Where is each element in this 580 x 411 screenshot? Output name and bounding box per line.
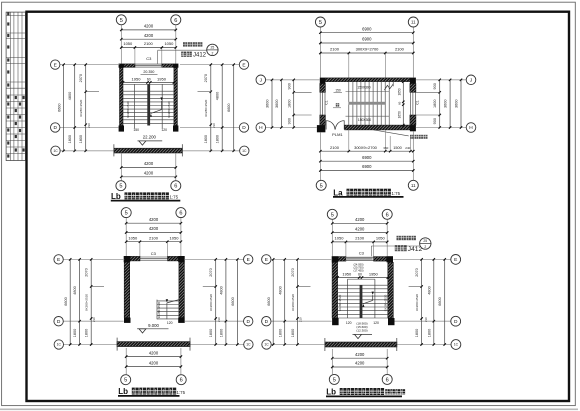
Q2 corner column bottom-right — [410, 125, 416, 131]
svg-text:E: E — [454, 257, 457, 263]
Q1 bottom dim 4200 upper — [120, 166, 177, 168]
Q2 axis line J right — [416, 79, 466, 81]
Q3 axis line C left — [63, 344, 117, 346]
svg-text:300X9=2700: 300X9=2700 — [356, 47, 380, 52]
svg-text:150: 150 — [335, 88, 341, 92]
svg-text:20.350: 20.350 — [143, 70, 154, 74]
Q3 window C3 lines — [140, 257, 168, 260]
Q1 left wall — [120, 68, 124, 126]
Q1 axis line D right — [180, 127, 239, 129]
svg-text:120: 120 — [346, 321, 352, 325]
Q1 detail index symbol — [207, 44, 218, 55]
svg-text:6600: 6600 — [438, 297, 442, 305]
Q4 axis bubble D left — [262, 317, 271, 326]
svg-text:6900: 6900 — [362, 26, 372, 31]
svg-text:2100: 2100 — [355, 236, 365, 241]
Q3 axis bubble D right — [244, 317, 253, 326]
Q3 corner column top-left — [124, 256, 131, 262]
Q4 axis bubble E right — [451, 255, 461, 265]
Q2 window C1 right wall — [410, 92, 415, 115]
svg-text:9X280=2520: 9X280=2520 — [204, 99, 208, 116]
Q1 column bottom-right — [173, 126, 178, 132]
svg-text:2100: 2100 — [144, 41, 154, 46]
Q4 axis bubble 5 top — [327, 209, 337, 219]
Q4 bottom dim 4200 lower — [331, 366, 388, 368]
svg-text:9X280=2520: 9X280=2520 — [338, 294, 342, 311]
Q4 inner dim line — [336, 276, 389, 278]
Q1 axis line E left — [60, 64, 120, 66]
svg-text:1650: 1650 — [397, 111, 401, 118]
Q2 stair treads vertical — [349, 82, 393, 126]
Q1 top wall hatched segments — [124, 64, 173, 67]
title block strip table — [6, 12, 25, 160]
svg-text:2070: 2070 — [85, 268, 89, 276]
Q3 right dim texts — [209, 268, 235, 337]
Q1 landing elevation 20.350 — [141, 70, 158, 74]
Q1 window C3 in top wall — [135, 64, 162, 67]
Q4 stair treads — [338, 285, 388, 318]
Q2 right chain 3600 b — [460, 79, 462, 129]
Q4 leader to railing note — [371, 246, 419, 256]
svg-text:5: 5 — [319, 20, 322, 26]
Q3 axis bubble E right — [244, 255, 253, 264]
Q2 axis line J left — [266, 79, 320, 81]
svg-text:4200: 4200 — [144, 24, 154, 29]
Q2 dim texts 2100 300X9=2700 2100 — [330, 47, 405, 52]
svg-text:1800: 1800 — [291, 329, 295, 337]
Q3 left chain 6600 — [69, 258, 71, 346]
svg-text:9X280=2520: 9X280=2520 — [167, 101, 171, 118]
svg-text:D: D — [265, 319, 269, 325]
svg-text:3600: 3600 — [275, 100, 279, 108]
Q2 axis bubble 11 top — [408, 17, 418, 27]
svg-text:3600: 3600 — [444, 100, 448, 108]
Q3 bottom dim 4200 lower — [125, 365, 182, 367]
Q4 stair well outline — [348, 279, 375, 318]
svg-text:4800: 4800 — [278, 286, 282, 294]
svg-text:60: 60 — [397, 101, 401, 104]
Q1 axis bubble D right — [239, 123, 248, 132]
svg-text:1800: 1800 — [79, 135, 83, 143]
Q4 corner column top-left — [332, 256, 339, 262]
Q3 axis bubble 5 top — [121, 208, 131, 218]
Q3 axis line E right — [184, 258, 243, 260]
Q4 column bottom-right — [388, 318, 395, 325]
Q2 dim 2100-2700-2100 — [319, 52, 414, 54]
svg-text:120: 120 — [167, 321, 173, 325]
svg-text:4200: 4200 — [144, 161, 154, 166]
Q3 axis 5 extension line — [125, 218, 127, 256]
Q2 axis 5 extension line — [319, 27, 321, 77]
Q1 axis bubble 6 bottom — [171, 181, 181, 191]
Q2 axis line H right — [416, 127, 466, 129]
Q4 right chain 6600 — [444, 258, 446, 346]
Q3 axis line D right — [185, 320, 244, 322]
Q1 stair rail left — [134, 84, 136, 128]
svg-text:1050: 1050 — [376, 236, 386, 241]
Q4 dim texts 1050 2100 1050 — [335, 236, 386, 241]
svg-text:H: H — [469, 125, 473, 131]
svg-text:Lb: Lb — [111, 192, 121, 201]
Q4 central divider wall — [360, 285, 363, 318]
Q4 window C3 sectioned sash — [346, 257, 374, 260]
Q2 column bottom-left — [317, 125, 326, 132]
svg-text:6900: 6900 — [362, 37, 372, 42]
Q4 axis bubble 5 bottom — [329, 374, 339, 384]
Q3 stair arrow line — [166, 299, 168, 319]
svg-text:6: 6 — [386, 377, 389, 383]
svg-text:E: E — [54, 62, 57, 68]
Q2 left chain 3600 outer — [271, 79, 273, 129]
Q3 left dim texts — [64, 268, 96, 337]
Q4 note text xi-nan J412 — [395, 245, 423, 253]
Q3 dim texts 1050 2100 1050 — [128, 235, 179, 240]
svg-text:1800: 1800 — [287, 100, 291, 108]
Q3 stair fragment treads — [157, 301, 179, 319]
svg-text:4200: 4200 — [355, 361, 365, 366]
svg-text:900: 900 — [433, 118, 437, 124]
svg-text:25: 25 — [423, 239, 427, 243]
svg-text:1C: 1C — [246, 343, 251, 347]
Q3 axis bubble 6 top — [176, 208, 186, 218]
Q1 axis 5 extension line — [120, 25, 122, 64]
svg-text:D: D — [454, 319, 458, 325]
svg-text:1050: 1050 — [123, 41, 133, 46]
svg-text:1800: 1800 — [204, 135, 208, 143]
svg-text:2070: 2070 — [204, 74, 208, 82]
Q4 top wall hatched segments — [338, 257, 386, 262]
title block tiny labels — [7, 12, 25, 157]
svg-text:1:75: 1:75 — [177, 390, 186, 395]
svg-text:E: E — [242, 62, 245, 68]
Q3 top wall hatched segments — [130, 256, 178, 261]
Q1 axis line C right — [182, 150, 239, 152]
svg-text:9X280=2520: 9X280=2520 — [291, 294, 295, 311]
Q1 stair rail right — [161, 84, 163, 128]
Q3 dim 1050-2100-1050 — [125, 241, 182, 243]
Q3 corner column top-right — [178, 256, 185, 262]
svg-text:2070: 2070 — [291, 268, 295, 276]
Q1 direction arrow — [150, 97, 163, 116]
svg-text:9X280=2520: 9X280=2520 — [384, 294, 388, 311]
svg-text:Lb: Lb — [326, 388, 336, 397]
Q1 axis bubble 5 bottom — [116, 181, 126, 191]
Q4 right chain 4800-1800 — [433, 258, 435, 346]
Q1 right chain detail — [210, 63, 212, 152]
svg-text:6600: 6600 — [227, 103, 231, 111]
svg-text:4200: 4200 — [144, 33, 154, 38]
svg-text:6900: 6900 — [362, 155, 372, 160]
Q1 dim line 1050-2100-1050 — [120, 46, 177, 48]
svg-text:9X280=2520: 9X280=2520 — [209, 294, 213, 311]
Q4 axis line D left — [271, 320, 332, 322]
svg-text:9X280=2520: 9X280=2520 — [126, 101, 130, 118]
svg-text:1500: 1500 — [393, 146, 401, 150]
Q2 axis bubble 11 bottom — [408, 180, 418, 190]
Q4 floor slab band — [325, 338, 397, 351]
svg-text:2070: 2070 — [79, 74, 83, 82]
svg-text:1800: 1800 — [219, 329, 223, 337]
svg-text:H: H — [259, 125, 263, 131]
Q4 left wall — [332, 262, 338, 318]
Q3 right chain 4800-1800 — [225, 258, 227, 346]
Q1 axis bubble 1C left — [51, 146, 60, 155]
Q2 axis bubble 5 top — [315, 17, 325, 27]
Q1 inner dim line — [122, 81, 175, 83]
Q4 bottom extension lines — [332, 349, 387, 374]
svg-text:150: 150 — [133, 128, 139, 132]
Q3 left chain boundary dash — [91, 286, 104, 288]
Q1 axis line D left — [60, 127, 119, 129]
Q3 axis bubble E left — [54, 255, 63, 264]
Q2 right wall hatched segments — [410, 84, 416, 126]
Q3 axis line C right — [190, 344, 244, 346]
Q1 central divider wall — [147, 84, 150, 125]
Q3 floor slab band — [117, 338, 190, 351]
svg-text:6: 6 — [174, 18, 177, 24]
svg-text:PLM1: PLM1 — [332, 132, 343, 137]
Q1 note text xi-nan J412 — [181, 52, 206, 59]
svg-text:4200: 4200 — [149, 360, 159, 365]
Q2 annotation 150 — [334, 88, 343, 92]
Q2 left chain 900-1800-900 — [293, 79, 295, 129]
Q3 column bottom-left — [124, 318, 131, 323]
Q4 right chain boundary dash — [409, 286, 422, 288]
Q2 flight rail lines — [346, 92, 390, 117]
svg-text:E: E — [265, 257, 268, 263]
Q4 dim 4200 lower — [331, 231, 388, 233]
svg-text:D: D — [242, 125, 246, 131]
Q3 bottom extension lines — [126, 348, 181, 374]
svg-text:60: 60 — [147, 78, 151, 82]
svg-text:1800: 1800 — [415, 329, 419, 337]
svg-text:210: 210 — [92, 317, 96, 322]
Q2 left dim texts — [266, 83, 292, 124]
svg-text:1950: 1950 — [342, 272, 352, 277]
Q2 axis bubble H left — [256, 123, 266, 133]
svg-text:120: 120 — [161, 128, 167, 132]
Q4 left chain detail — [296, 258, 298, 346]
Q3 dim 4200 upper — [125, 222, 182, 224]
Q4 landing elevation stack — [353, 263, 363, 273]
Q1 corner column top-right — [173, 64, 178, 68]
Q3 left wall — [124, 262, 130, 317]
Q1 dim texts 1050 2100 1050 — [123, 41, 174, 46]
scan shadow line bottom — [0, 408, 578, 410]
Q2 axis line H left — [266, 127, 317, 129]
svg-text:6600: 6600 — [231, 297, 235, 305]
svg-text:D: D — [246, 319, 250, 325]
Q3 axis bubble 5 bottom — [121, 375, 131, 385]
svg-text:150X300: 150X300 — [357, 85, 370, 89]
Q1 axis line C left — [61, 150, 114, 152]
Q2 bottom dim 6900 lower — [319, 169, 414, 171]
Q4 axis line C left — [271, 344, 325, 346]
Q2 title La stair plan — [333, 188, 404, 197]
Q4 right dim texts — [415, 268, 442, 337]
Q3 right wall — [179, 262, 185, 317]
svg-text:210: 210 — [87, 123, 91, 128]
svg-text:4800: 4800 — [216, 92, 220, 100]
Q4 dim 4200 upper — [331, 222, 388, 224]
svg-text:1650: 1650 — [397, 88, 401, 95]
svg-text:210: 210 — [217, 317, 221, 322]
Q3 window extension lines — [140, 242, 167, 257]
svg-text:E: E — [247, 257, 250, 263]
svg-text:5: 5 — [120, 18, 123, 24]
svg-text:6: 6 — [174, 184, 177, 190]
Q4 column bottom-left — [332, 318, 339, 325]
svg-text:C3: C3 — [359, 251, 365, 256]
Q2 corner column top-right — [410, 78, 416, 84]
svg-text:6: 6 — [180, 378, 183, 384]
Q1 axis bubble 6 top — [171, 15, 181, 25]
svg-text:1050: 1050 — [128, 235, 138, 240]
Q3 column bottom-right — [178, 318, 185, 323]
svg-text:1:75: 1:75 — [170, 195, 179, 200]
svg-text:210: 210 — [212, 123, 216, 128]
svg-text:C3: C3 — [151, 251, 157, 256]
Q1 floor slab band — [114, 144, 182, 156]
Q2 central handrail band — [348, 102, 385, 105]
svg-text:5: 5 — [124, 378, 127, 384]
svg-text:1800: 1800 — [433, 100, 437, 108]
svg-text:9.000: 9.000 — [148, 323, 159, 328]
svg-text:5: 5 — [331, 212, 334, 218]
Q3 stair break diagonal — [167, 299, 181, 303]
Q3 dim 4200 lower — [125, 231, 182, 233]
svg-text:1950: 1950 — [369, 272, 379, 277]
Q4 bottom dim 4200 upper — [331, 357, 388, 359]
svg-text:3600: 3600 — [266, 100, 270, 108]
Q2 axis bubble J right — [466, 75, 476, 85]
Q1 right chain 6600 — [233, 63, 235, 152]
Q2 axis bubble J left — [256, 75, 266, 85]
svg-text:1:75: 1:75 — [392, 191, 401, 196]
svg-text:2070: 2070 — [209, 268, 213, 276]
Q4 axis bubble D right — [451, 316, 461, 326]
Q3 axis bubble 1C left — [54, 340, 63, 349]
Q1 right chain boundary dash — [198, 91, 211, 93]
svg-text:1800: 1800 — [73, 329, 77, 337]
svg-text:210: 210 — [299, 317, 303, 322]
Q1 bottom extension lines — [121, 154, 176, 181]
svg-text:4800: 4800 — [427, 286, 431, 294]
Q4 axis 6 extension line — [386, 220, 388, 257]
svg-text:9X280=2520: 9X280=2520 — [415, 294, 419, 311]
Q4 corner column top-right — [387, 256, 394, 262]
Q4 axis 5 extension line — [331, 220, 333, 257]
svg-text:4200: 4200 — [355, 217, 365, 222]
svg-text:4200: 4200 — [144, 171, 154, 176]
Q2 bottom dim 6900 upper — [319, 160, 414, 162]
svg-text:1800: 1800 — [278, 329, 282, 337]
svg-text:5: 5 — [119, 184, 122, 190]
Q3 left chain detail — [90, 258, 92, 346]
svg-text:1C: 1C — [57, 343, 62, 347]
svg-text:6: 6 — [386, 212, 389, 218]
svg-text:300X9=2700: 300X9=2700 — [354, 145, 378, 150]
Q4 left chain 6600 — [272, 258, 274, 346]
Q4 title Lb stair plan floors 2-6 — [326, 388, 405, 397]
svg-text:4200: 4200 — [355, 352, 365, 357]
svg-text:360: 360 — [383, 146, 388, 150]
svg-text:900: 900 — [287, 83, 291, 89]
Q2 top wall hatched — [325, 78, 410, 82]
Q4 detail index symbol — [420, 238, 431, 249]
Q2 double door PLM1 — [326, 121, 344, 130]
Q1 axis bubble 1C right — [240, 146, 249, 155]
Q2 axis bubble 5 bottom — [316, 180, 326, 190]
svg-text:1C: 1C — [264, 343, 269, 347]
svg-text:2100: 2100 — [330, 47, 340, 52]
svg-text:5: 5 — [125, 211, 128, 217]
svg-text:6900: 6900 — [362, 164, 372, 169]
svg-text:9X280=2520: 9X280=2520 — [157, 301, 161, 318]
Q1 left chain 4800-1800 — [74, 63, 76, 152]
Q4 right chain detail — [420, 258, 422, 346]
Q1 left chain boundary dash — [86, 91, 99, 93]
svg-text:2: 2 — [211, 52, 213, 56]
svg-text:1800: 1800 — [68, 135, 72, 143]
Q1 axis line E right — [180, 64, 239, 66]
Q1 axis bubble E right — [239, 60, 248, 69]
svg-text:C1: C1 — [415, 100, 419, 105]
svg-text:120: 120 — [373, 321, 379, 325]
Q3 elevation mark 9.000 — [137, 323, 169, 333]
svg-text:9X280=2520: 9X280=2520 — [85, 294, 89, 311]
Q4 direction arrow — [362, 292, 374, 307]
Q2 right chain 3600 a — [449, 79, 451, 129]
svg-text:C1: C1 — [325, 100, 329, 105]
svg-text:22.200: 22.200 — [143, 135, 157, 140]
svg-text:2100: 2100 — [395, 47, 405, 52]
Q2 stair extension lines top — [349, 53, 386, 81]
Q3 right chain detail — [215, 258, 217, 346]
Q4 inner dim texts 1950 60 1950 — [342, 272, 378, 277]
svg-text:1050: 1050 — [170, 235, 180, 240]
Q1 axis bubble D left — [51, 123, 60, 132]
Q4 window extension lines — [346, 242, 374, 257]
Q1 right chain 4800-1800 — [221, 63, 223, 152]
Q4 elevation stack bottom — [353, 322, 373, 339]
Q4 right wall — [388, 262, 394, 318]
Q3 axis 6 extension line — [180, 218, 182, 256]
svg-text:E: E — [57, 257, 60, 263]
Q2 up arrow label — [333, 103, 341, 108]
Q1 right wall — [174, 68, 178, 126]
svg-text:1950: 1950 — [157, 77, 167, 82]
Q1 stair treads — [123, 91, 174, 123]
svg-text:1050: 1050 — [335, 236, 345, 241]
Q2 left chain 3600 inner — [280, 79, 282, 129]
svg-text:210: 210 — [424, 317, 428, 322]
Q1 dim line 4200 upper — [120, 29, 177, 31]
svg-text:4800: 4800 — [73, 286, 77, 294]
Q4 axis bubble E left — [262, 255, 271, 264]
Q3 axis bubble D left — [54, 317, 63, 326]
svg-text:1800: 1800 — [85, 329, 89, 337]
Q2 skirting leader — [374, 130, 428, 139]
Q1 axis bubble 5 top — [116, 15, 126, 25]
svg-text:(12.300): (12.300) — [356, 329, 367, 333]
svg-text:6600: 6600 — [267, 297, 271, 305]
svg-text:1800: 1800 — [209, 329, 213, 337]
svg-text:5: 5 — [320, 183, 323, 189]
svg-text:11: 11 — [411, 20, 416, 25]
Q1 note text hu-chuang-lan-gan — [183, 42, 202, 46]
svg-text:900: 900 — [287, 118, 291, 124]
